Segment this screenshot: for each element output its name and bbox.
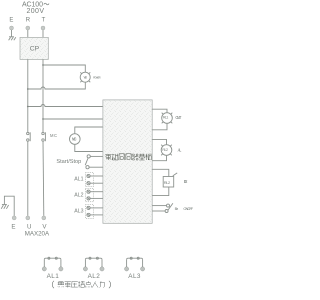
label ON/OFF: [183, 206, 193, 211]
svg-text:WL: WL: [84, 76, 88, 80]
label AL3: [74, 209, 83, 215]
wire L1 contact to U: [27, 141, 29, 216]
svg-text:Bz: Bz: [175, 206, 179, 211]
board terminal AL1-a: [87, 174, 103, 177]
terminal V: [42, 216, 46, 220]
label Bz: [184, 179, 189, 184]
terminal E (top): [9, 17, 13, 23]
junction L2-board feed: [42, 118, 44, 120]
wire L2 (CP out to contact): [42, 59, 44, 132]
label 電磁開閉器基板 (board title, drawn strokes): [105, 154, 111, 160]
board terminal AL2-a: [87, 190, 103, 193]
svg-text:T: T: [42, 17, 46, 23]
svg-text:RL2: RL2: [164, 180, 171, 185]
svg-text:R: R: [26, 17, 31, 23]
label AL2: [74, 192, 83, 198]
board terminal AL3-a: [87, 206, 103, 209]
label MC: [50, 133, 57, 138]
junction L1-lamp return: [27, 88, 29, 90]
switch Start/Stop: [56, 159, 81, 165]
terminal U: [26, 216, 30, 220]
wire L2 contact to V: [42, 141, 45, 216]
label AL1: [74, 177, 83, 183]
dashed group AL2: [85, 189, 93, 202]
terminal R (top): [26, 17, 31, 23]
svg-text:RL2: RL2: [162, 148, 168, 152]
wire RL1 return to board: [152, 123, 167, 130]
label AL2 (connector): [88, 273, 101, 280]
svg-text:RL1: RL1: [163, 116, 168, 120]
label AL3 (connector): [128, 273, 141, 280]
label MAX20A: [25, 231, 50, 238]
wire E (bottom) to ground: [4, 196, 14, 216]
label AL1 (connector): [47, 273, 60, 280]
board terminal AL2-b: [87, 197, 103, 200]
svg-text:AL: AL: [178, 147, 182, 152]
wire R to CP: [27, 30, 29, 37]
svg-text:OUT: OUT: [175, 115, 181, 120]
label POWER: [93, 76, 101, 80]
contactor coil MC: [70, 134, 81, 145]
pilot lamp RL1: [162, 113, 173, 124]
svg-text:MC: MC: [72, 136, 77, 141]
ground (bottom left): [1, 205, 8, 209]
buzzer RL3 box: [163, 177, 174, 188]
label Bz (switch): [175, 206, 179, 211]
svg-text:ON/OFF: ON/OFF: [183, 206, 193, 211]
svg-text:AL3: AL3: [128, 273, 141, 280]
label AL: [178, 147, 182, 152]
label AC100~200V: [22, 2, 49, 15]
wire L2 to board: [43, 118, 103, 120]
svg-text:Start/Stop: Start/Stop: [56, 159, 81, 165]
svg-text:AL2: AL2: [74, 192, 83, 198]
terminal E (bottom): [12, 216, 16, 220]
svg-text:CP: CP: [30, 45, 40, 52]
svg-text:MAX20A: MAX20A: [25, 231, 50, 238]
wire E to ground: [11, 30, 13, 37]
wire lamp feed (L2 to WL top): [43, 65, 85, 72]
svg-text:AL2: AL2: [88, 273, 101, 280]
connector AL1 jumper: [42, 257, 63, 271]
junction L1-board feed: [27, 106, 29, 108]
svg-text:MC: MC: [50, 133, 57, 138]
pilot lamp RL2: [161, 145, 172, 156]
dashed group AL3: [85, 205, 93, 219]
wire MC top to board: [75, 127, 103, 134]
svg-text:Bz: Bz: [184, 179, 189, 184]
switch Bz ON/OFF: [152, 203, 173, 212]
breaker CP: [20, 37, 48, 59]
svg-text:200V: 200V: [27, 8, 45, 15]
wire L1 (CP out to contact): [27, 59, 29, 132]
wire T to CP: [42, 30, 44, 37]
wire board to RL1: [152, 109, 167, 113]
label OUT: [175, 115, 181, 120]
buzzer striker mark: [173, 173, 177, 176]
label （無電圧接点入力）: [52, 281, 54, 288]
contact MC (L1 phase): [27, 132, 31, 141]
wire MC bottom to board: [75, 144, 103, 151]
connector AL2 jumper: [83, 257, 104, 271]
board 電磁開閉器基板: [103, 100, 152, 223]
wire board to buzzer: [152, 169, 169, 176]
board terminal AL1-b: [87, 182, 103, 185]
wire RL2 return to board: [152, 155, 166, 160]
connector AL3 jumper: [125, 257, 145, 271]
svg-text:POWER: POWER: [93, 76, 101, 80]
pilot lamp WL: [80, 72, 90, 82]
board terminal AL3-b: [87, 213, 103, 216]
contact MC (L2 phase): [42, 132, 46, 141]
wire board to RL2: [152, 139, 166, 144]
wire buzzer return to board: [152, 187, 169, 196]
dashed group AL1: [85, 173, 93, 187]
junction L2-lamp: [42, 64, 44, 66]
svg-text:E: E: [11, 224, 15, 231]
terminal T (top): [42, 17, 46, 23]
svg-text:E: E: [9, 17, 13, 23]
svg-text:AL1: AL1: [74, 177, 83, 183]
svg-text:AL3: AL3: [74, 209, 83, 215]
wire L1 to board (hop over L2): [28, 105, 103, 107]
wire lamp return (WL bottom to L1, hop over L2): [28, 82, 86, 89]
ground (top, at E): [9, 37, 16, 41]
svg-text:AL1: AL1: [47, 273, 60, 280]
